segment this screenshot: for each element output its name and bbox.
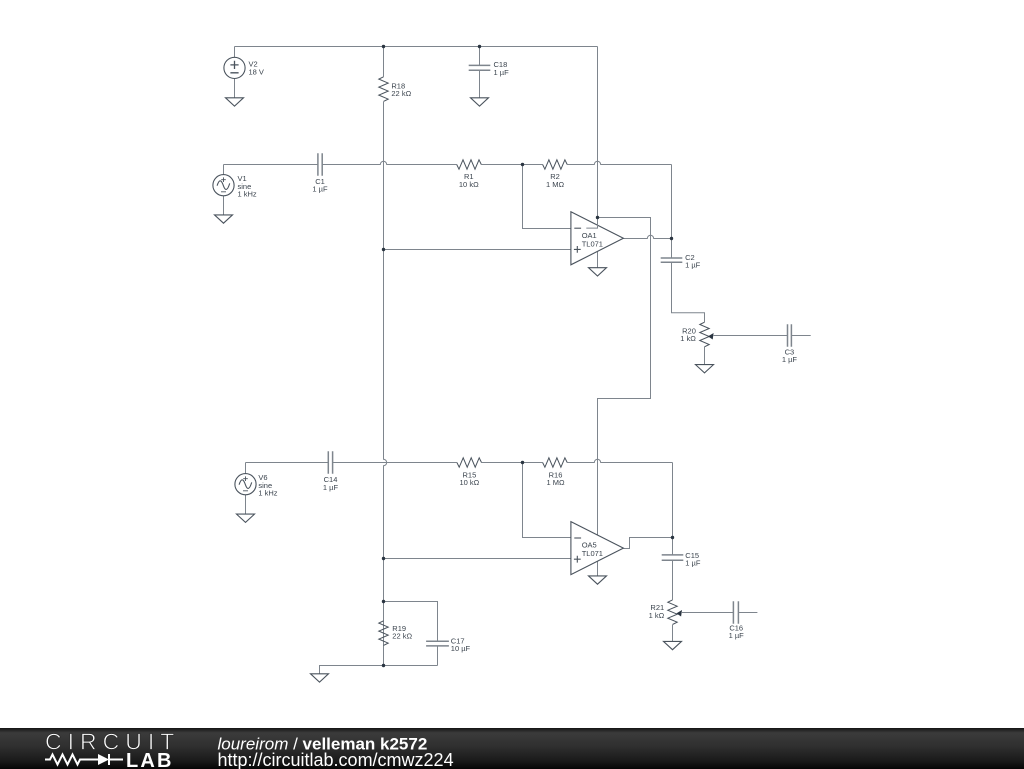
capacitor C14: [328, 451, 332, 473]
junction top rail at R18: [382, 45, 385, 48]
svg-text:1 kΩ: 1 kΩ: [680, 334, 696, 343]
wire V1 top stub: [223, 165, 225, 175]
svg-text:1 kHz: 1 kHz: [238, 190, 257, 199]
wire V6 top stub: [245, 463, 247, 474]
wire R19 top stub: [383, 602, 385, 621]
wire R21 wiper to C16: [682, 612, 733, 614]
R20 wiper arrow: [708, 333, 714, 340]
wire OA1 non-inverting input branch: [384, 249, 571, 251]
wire OA5 output jog to C15 node: [623, 538, 672, 549]
wire R1 to R2 with node: [481, 164, 542, 166]
wire V6 bottom to ground: [245, 495, 247, 514]
svg-text:1 MΩ: 1 MΩ: [546, 180, 565, 189]
wire OA1 V- stub to ground: [597, 252, 599, 268]
capacitor C2: [661, 258, 683, 262]
R21 wiper arrow: [676, 610, 682, 617]
junction non-inverting branch OA1: [382, 248, 385, 251]
ground below OA5: [589, 576, 607, 584]
wire C16 right stub: [738, 612, 757, 614]
resistor R1: [457, 160, 482, 169]
svg-text:1 µF: 1 µF: [312, 184, 328, 193]
wire bottom return to ground: [320, 666, 438, 674]
wire OA5 inverting input branch: [523, 463, 571, 538]
wire C18 bottom to ground: [479, 70, 481, 98]
ground below R20: [696, 365, 714, 373]
svg-text:1 MΩ: 1 MΩ: [546, 478, 565, 487]
wire C15 to R21: [672, 538, 674, 555]
capacitor C18: [469, 65, 491, 70]
wire main horizontal y=462 (V6 to C14 to R15): [246, 462, 457, 464]
wire OA1 output to C2 node: [623, 235, 671, 238]
svg-text:10 kΩ: 10 kΩ: [459, 180, 479, 189]
svg-text:1 kHz: 1 kHz: [258, 489, 277, 498]
junction top rail at C18: [478, 45, 481, 48]
ground below V2: [226, 98, 244, 106]
svg-text:22 kΩ: 22 kΩ: [392, 632, 412, 641]
wire right rail drop x=598 to V+ node: [597, 47, 599, 218]
resistor R18: [379, 77, 388, 102]
svg-text:OA1: OA1: [582, 231, 597, 240]
wire OA1 inverting input branch: [523, 165, 571, 229]
wire C2 to R20 route: [671, 239, 673, 259]
junction OA5 output node: [671, 536, 674, 539]
svg-text:TL071: TL071: [582, 549, 603, 558]
potentiometer R21: [668, 600, 677, 625]
svg-text:OA5: OA5: [582, 540, 597, 549]
wire R18/main vertical bus x=384: [383, 47, 385, 77]
svg-text:10 kΩ: 10 kΩ: [460, 478, 480, 487]
wire V+ power route to OA5: [598, 218, 651, 535]
svg-text:1 kΩ: 1 kΩ: [649, 611, 665, 620]
junction R19/C17 bottom: [382, 664, 385, 667]
wire R21 bottom to ground: [672, 625, 674, 642]
junction V+ node: [596, 216, 599, 219]
wire R2 right to corner and down to C2 node: [567, 161, 671, 164]
junction OA1 output node: [670, 237, 673, 240]
wire C3 right stub: [791, 335, 810, 337]
wire OA5 V- stub to ground: [597, 562, 599, 576]
capacitor C15: [662, 555, 684, 560]
op-amp OA5: [571, 522, 624, 575]
logo resistor-diode glyph: [45, 754, 123, 764]
svg-text:18 V: 18 V: [249, 67, 264, 76]
capacitor C17: [426, 641, 449, 646]
junction R19/C17 top: [382, 600, 385, 603]
wire R20 wiper to C3: [714, 335, 788, 337]
resistor R19: [379, 621, 388, 646]
wire C17 bottom stub: [437, 646, 439, 666]
ground below V1: [215, 215, 233, 223]
op-amp OA1: [571, 212, 624, 265]
svg-text:http://circuitlab.com/cmwz224: http://circuitlab.com/cmwz224: [218, 750, 454, 769]
wire main horizontal y=164 (V1 to C1 to R1): [224, 161, 457, 164]
junction R1/R2 node: [521, 163, 524, 166]
svg-text:1 µF: 1 µF: [494, 68, 510, 77]
potentiometer R20: [700, 322, 709, 347]
wire R16 right to corner down to C15 node: [567, 459, 672, 462]
wire C18 top stub: [479, 47, 481, 66]
svg-text:TL071: TL071: [582, 240, 603, 249]
voltage source V2: [224, 57, 245, 78]
capacitor C1: [318, 153, 322, 175]
capacitor C3: [788, 324, 792, 346]
ground below OA1: [589, 268, 607, 276]
junction R15/R16 node: [521, 461, 524, 464]
svg-text:10 µF: 10 µF: [451, 644, 471, 653]
svg-text:1 µF: 1 µF: [323, 483, 339, 492]
svg-text:1 µF: 1 µF: [685, 261, 701, 270]
wire V+ node L-stub into OA1: [586, 218, 597, 229]
wire R15 to R16: [482, 462, 543, 464]
wire V2 bottom to ground: [234, 79, 236, 98]
wire R19 bottom stub: [383, 645, 385, 665]
ground below V6: [237, 514, 255, 522]
capacitor C16: [733, 601, 738, 623]
svg-text:22 kΩ: 22 kΩ: [391, 89, 411, 98]
resistor R2: [543, 160, 568, 169]
voltage source V6: [235, 474, 256, 495]
wire R20 bottom to ground: [704, 347, 706, 365]
ground below C18: [471, 98, 489, 106]
wire top +18V rail: [235, 46, 598, 48]
svg-text:1 µF: 1 µF: [782, 355, 798, 364]
resistor R16: [543, 458, 568, 467]
ground bottom left: [311, 674, 329, 682]
wire V2 to rail stub: [234, 47, 236, 58]
footer bar: [0, 728, 1024, 769]
wire V1 bottom to ground: [223, 196, 225, 215]
resistor R15: [457, 458, 482, 467]
svg-text:1 µF: 1 µF: [685, 559, 701, 568]
svg-text:1 µF: 1 µF: [729, 631, 745, 640]
ground below R21: [664, 641, 682, 649]
svg-text:LAB: LAB: [126, 749, 174, 768]
junction non-inverting branch OA5: [382, 557, 385, 560]
voltage source V1: [213, 175, 234, 196]
wire OA5 non-inverting input branch: [384, 558, 571, 560]
wire R19/C17 top branch: [384, 602, 438, 642]
